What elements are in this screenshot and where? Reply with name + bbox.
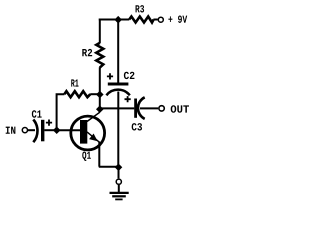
ground bar 1 xyxy=(110,192,129,194)
ground bar 3 xyxy=(115,198,122,200)
capacitor C1 curved plate xyxy=(33,120,37,143)
resistor R2 xyxy=(96,43,103,68)
node junction dot top rail xyxy=(114,16,122,24)
capacitor C3 flat plate xyxy=(134,99,137,118)
label R1 xyxy=(71,79,78,86)
wire emitter down xyxy=(98,142,100,167)
ground bar 2 xyxy=(112,195,126,197)
label C2 xyxy=(124,72,135,79)
wire top rail xyxy=(99,19,130,21)
terminal +9V circle xyxy=(158,17,163,22)
capacitor C2 top plate xyxy=(108,83,129,86)
plus sign C2 xyxy=(107,73,113,79)
wire IN terminal to C1 xyxy=(28,129,35,131)
label Q1 xyxy=(82,152,91,161)
wire collector node to C3 xyxy=(100,107,135,109)
label R2 xyxy=(82,49,92,56)
wire C3 to OUT terminal xyxy=(140,107,158,109)
wire terminal to ground symbol xyxy=(118,185,120,193)
node junction dot R1/R2 xyxy=(96,91,104,99)
wire R1 branch (base node up and right) xyxy=(57,94,65,131)
resistor R3 xyxy=(129,17,153,23)
wire C1 to base node xyxy=(44,129,54,131)
wire C2 bottom to ground node xyxy=(117,92,119,168)
label OUT xyxy=(171,105,189,112)
transistor Q1 base bar xyxy=(80,120,87,144)
label C1 xyxy=(32,110,42,117)
resistor R1 xyxy=(64,91,90,97)
node junction dot collector xyxy=(96,105,104,113)
wire base node to transistor base xyxy=(57,129,80,131)
plus sign C3 xyxy=(125,96,131,102)
terminal OUT circle xyxy=(159,106,164,111)
wire R1 to collector line xyxy=(90,93,100,95)
wire R2 bottom to collector node xyxy=(99,67,101,110)
capacitor C1 flat plate xyxy=(41,120,44,142)
wire emitter to ground node xyxy=(99,166,119,168)
node junction dot ground xyxy=(115,164,123,172)
transistor Q1 circle xyxy=(71,116,105,150)
wire C2 top branch xyxy=(117,19,119,83)
transistor Q1 collector lead xyxy=(87,109,99,122)
label IN xyxy=(6,127,16,134)
label C3 xyxy=(132,123,142,130)
node junction dot base xyxy=(53,126,61,134)
label R3 xyxy=(136,5,145,12)
wire R3 to +9V terminal xyxy=(153,19,157,21)
terminal ground circle xyxy=(116,179,121,184)
capacitor C2 bottom plate (curved) xyxy=(106,90,129,96)
wire ground node to terminal xyxy=(118,167,120,178)
capacitor C3 curved plate xyxy=(138,97,145,119)
transistor Q1 emitter lead xyxy=(87,132,100,142)
terminal IN circle xyxy=(22,128,27,133)
plus sign C1 xyxy=(46,120,52,126)
transistor Q1 emitter arrowhead xyxy=(89,134,98,142)
wire R2 top xyxy=(99,19,101,44)
label +9V xyxy=(168,16,187,23)
